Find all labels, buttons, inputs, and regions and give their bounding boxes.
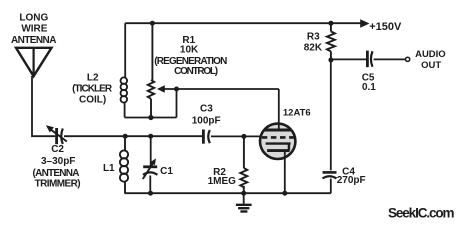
svg-text:3–30pF: 3–30pF	[41, 156, 75, 167]
resistor R2 (grid leak)	[240, 136, 247, 193]
svg-text:(TICKLER: (TICKLER	[72, 83, 113, 94]
tube 12AT6 U1	[260, 124, 295, 159]
grid (dashed)	[262, 136, 294, 139]
wire antenna lead down to grid line	[32, 76, 55, 136]
svg-text:12AT6: 12AT6	[283, 108, 311, 119]
terminal AUDIO OUT	[406, 57, 410, 61]
wire L2 bottom link to node A	[125, 117, 177, 119]
svg-text:82K: 82K	[304, 43, 323, 54]
svg-text:100pF: 100pF	[192, 116, 221, 127]
svg-text:CONTROL): CONTROL)	[174, 66, 218, 77]
svg-text:C2: C2	[51, 144, 64, 155]
wire grid line C2 to C3	[64, 135, 202, 137]
svg-text:+150V: +150V	[369, 21, 402, 33]
svg-text:L1: L1	[103, 163, 115, 174]
wire node B down to link	[176, 89, 178, 118]
svg-text:1MEG: 1MEG	[208, 176, 237, 187]
svg-text:C3: C3	[200, 103, 213, 114]
wire C3 to tube grid	[211, 135, 261, 137]
node R3 top	[328, 21, 333, 26]
svg-text:R3: R3	[307, 32, 320, 43]
svg-text:270pF: 270pF	[337, 175, 366, 186]
svg-text:C1: C1	[160, 166, 173, 177]
svg-text:COIL): COIL)	[79, 95, 106, 106]
cathode	[266, 142, 291, 144]
node C1 tap	[148, 134, 153, 139]
svg-text:10K: 10K	[180, 44, 199, 55]
wire wiper to plate	[164, 88, 279, 90]
node L1 tap	[123, 134, 128, 139]
svg-text:ANTENNA: ANTENNA	[11, 35, 56, 46]
ground	[236, 193, 252, 211]
node R1 top	[150, 21, 155, 26]
arrow +150V	[360, 19, 369, 28]
svg-text:LONG: LONG	[19, 13, 48, 24]
wire bottom ground bus	[124, 192, 331, 194]
node R2 bottom	[241, 191, 246, 196]
antenna LONG WIRE	[16, 48, 52, 76]
inductor L2 (tickler)	[121, 23, 128, 117]
potentiometer R1 (regeneration control)	[148, 23, 154, 117]
capacitor C5 (output coupling)	[367, 51, 372, 68]
wire R3 node down to C4	[330, 60, 332, 170]
svg-text:SeekIC.com: SeekIC.com	[388, 205, 455, 220]
capacitor C2 (antenna trimmer)	[50, 128, 67, 144]
resistor R3 (plate load)	[327, 23, 335, 60]
wire audio tap to C5	[331, 58, 366, 60]
wire plate lead up to wiper line	[278, 89, 280, 130]
svg-text:AUDIO: AUDIO	[415, 49, 446, 60]
plate	[264, 129, 291, 132]
node R2 tap	[241, 134, 246, 139]
svg-text:(ANTENNA: (ANTENNA	[33, 168, 80, 179]
svg-text:WIRE: WIRE	[21, 23, 47, 34]
capacitor C3 (grid cap)	[203, 130, 209, 144]
node cathode bottom	[282, 191, 287, 196]
node A (L2/R1 junction)	[148, 115, 153, 120]
wiper arrow	[157, 85, 165, 92]
node C1 bottom	[148, 191, 153, 196]
svg-text:TRIMMER): TRIMMER)	[35, 178, 81, 189]
wire cathode lead down	[284, 151, 286, 193]
svg-text:OUT: OUT	[421, 60, 441, 71]
node R3 bottom / audio tap	[328, 58, 333, 63]
inductor L1	[120, 136, 128, 193]
svg-text:L2: L2	[87, 72, 99, 83]
svg-text:0.1: 0.1	[362, 82, 376, 93]
diode plates	[267, 149, 290, 152]
capacitor C4 (plate bypass)	[323, 172, 337, 193]
wire C5 to output terminal	[374, 58, 406, 60]
capacitor C1 (tuning, variable)	[143, 136, 158, 193]
node B on wiper line	[174, 87, 179, 92]
wire B+ top rail	[125, 22, 361, 24]
